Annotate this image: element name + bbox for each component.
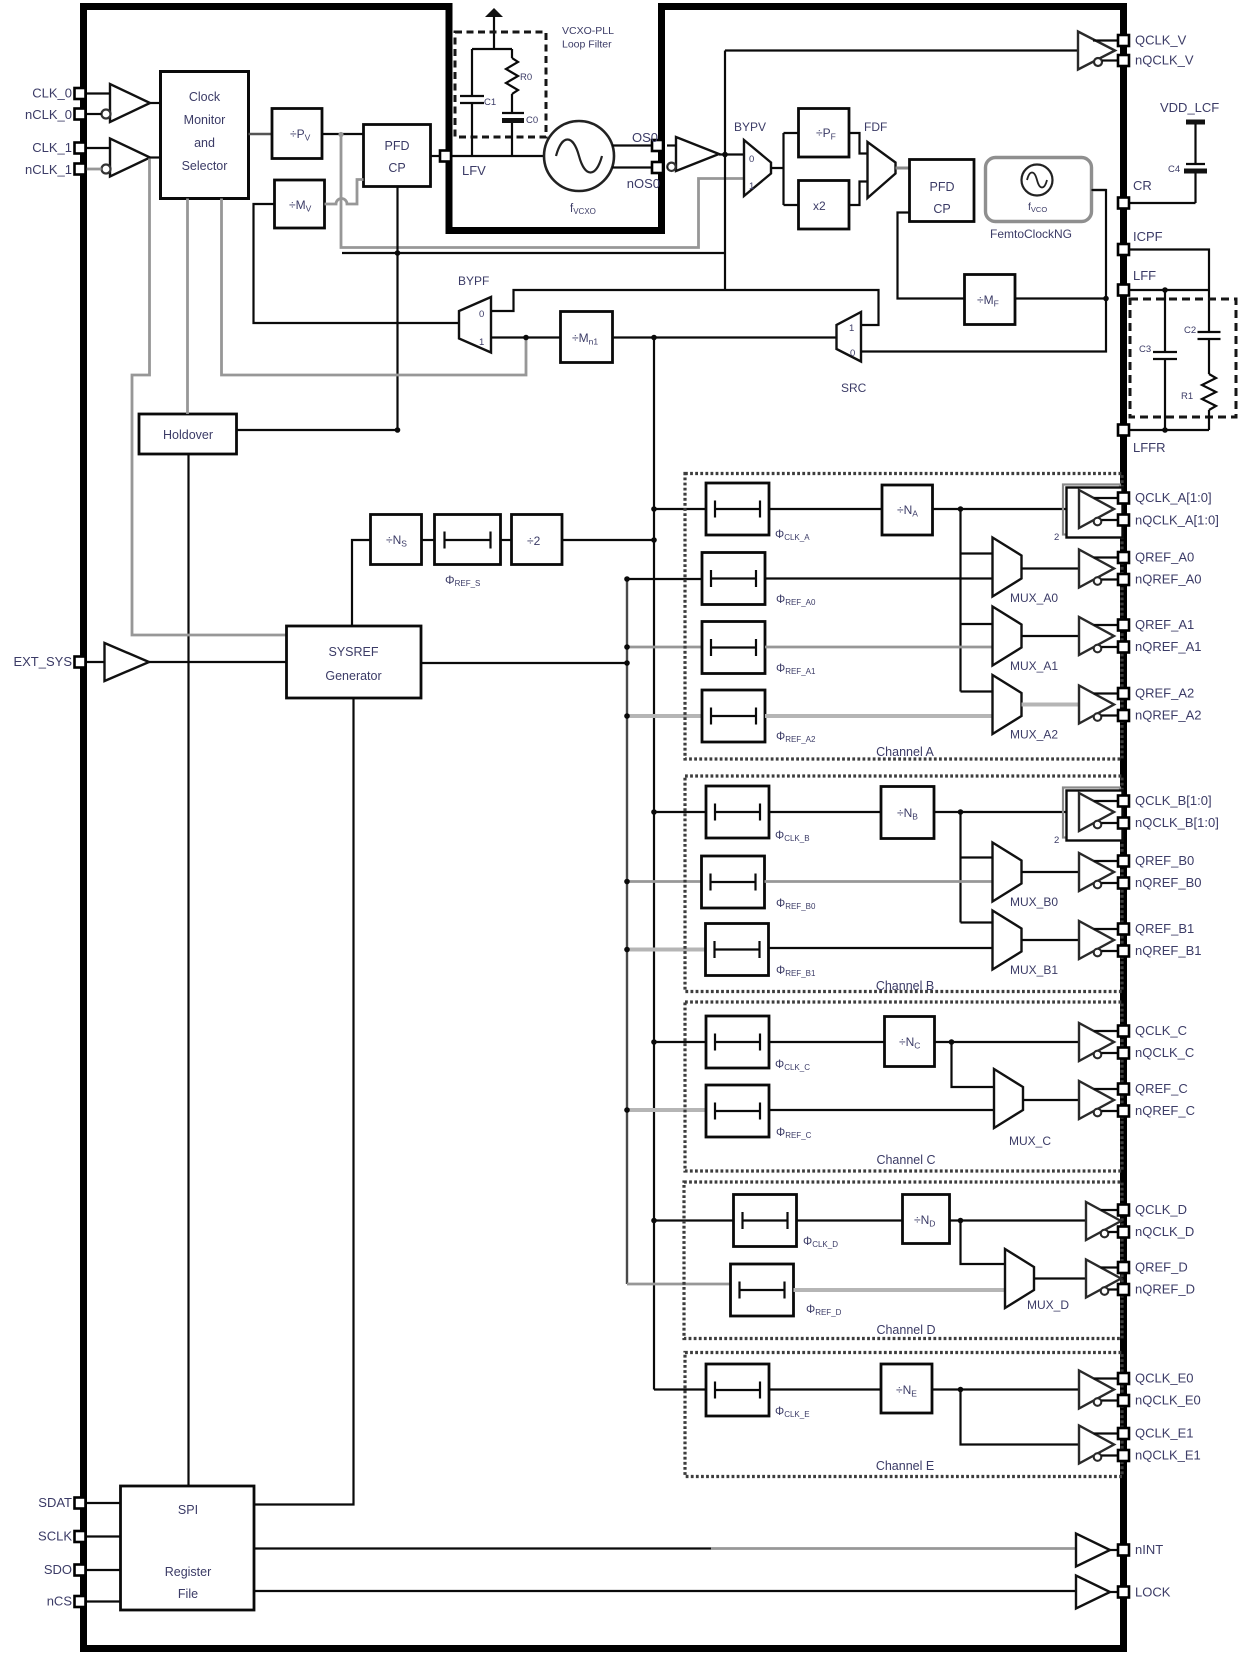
node QREF_A1 pin	[1118, 620, 1129, 631]
wire ICPF to external filter	[1130, 250, 1210, 333]
divider N_S	[371, 515, 422, 565]
svg-text:nCLK_1: nCLK_1	[25, 162, 72, 177]
divider N_B	[881, 787, 934, 839]
node QCLK_E0 pin	[1118, 1373, 1129, 1384]
divider N_E	[881, 1364, 932, 1413]
svg-text:QREF_A0: QREF_A0	[1135, 550, 1194, 565]
wire SPI to LOCK buffer	[254, 1590, 1076, 1592]
output buffer QREF_B1	[1079, 921, 1118, 959]
wire PV to PFD	[322, 133, 364, 135]
wire muxB0 top input	[961, 856, 993, 858]
node EXT_SYS pin	[75, 657, 86, 668]
wire OS0	[612, 144, 656, 146]
svg-text:MUX_D: MUX_D	[1027, 1298, 1069, 1312]
wire refC to mux	[769, 1109, 994, 1111]
svg-text:SYSREF: SYSREF	[328, 645, 378, 659]
wire gray PV-out branch down (to BYPV input 1)	[338, 132, 343, 137]
wire SPI to nINT buffer	[254, 1547, 711, 1549]
node nQREF_A2 pin	[1118, 710, 1129, 721]
capacitor C4	[1168, 164, 1207, 203]
wire mux feed vertical channel D	[961, 1221, 1006, 1265]
svg-text:R1: R1	[1181, 391, 1193, 402]
mux MUX_B1	[993, 911, 1022, 970]
wire clkB to NB	[769, 811, 881, 813]
wire PF out to FDF	[849, 133, 868, 154]
buffer LOCK	[1076, 1576, 1110, 1609]
wire OS0 net horizontal y253	[342, 252, 725, 254]
delay block PHI_CLK_C	[706, 1016, 769, 1068]
divider by 2	[512, 515, 563, 565]
wire NE to QCLK_E0 buffer	[932, 1388, 1079, 1390]
svg-text:QCLK_B[1:0]: QCLK_B[1:0]	[1135, 793, 1212, 808]
svg-text:0: 0	[479, 309, 484, 320]
svg-text:nQCLK_C: nQCLK_C	[1135, 1045, 1194, 1060]
wire nOS0	[612, 166, 656, 168]
wire nCS	[86, 1600, 121, 1602]
svg-text:MUX_C: MUX_C	[1009, 1134, 1051, 1148]
svg-text:File: File	[178, 1587, 198, 1601]
divider M_V	[275, 180, 325, 228]
divider N_D	[903, 1195, 950, 1244]
wire SDAT	[86, 1502, 121, 1504]
capacitor C0	[502, 113, 538, 156]
svg-text:QREF_A2: QREF_A2	[1135, 686, 1194, 701]
svg-text:nQREF_B0: nQREF_B0	[1135, 875, 1201, 890]
oscillator block fVCO FemtoClockNG	[986, 158, 1092, 242]
wire ND to QCLK_D buffer	[950, 1219, 1087, 1221]
node LFF pin	[1118, 285, 1129, 296]
node nQREF_C pin	[1118, 1106, 1129, 1117]
wire main clock vertical x654	[653, 338, 655, 1390]
node QREF_B1 pin	[1118, 924, 1129, 935]
mux MUX_B0	[993, 843, 1022, 902]
wire OS0 net vertical x725	[724, 51, 726, 291]
svg-text:FDF: FDF	[864, 120, 887, 134]
input buffer CLK_1/nCLK_1	[102, 139, 151, 177]
capacitor C1	[460, 49, 496, 156]
svg-text:QCLK_A[1:0]: QCLK_A[1:0]	[1135, 490, 1212, 505]
svg-text:nQREF_D: nQREF_D	[1135, 1282, 1195, 1297]
svg-text:nQREF_A1: nQREF_A1	[1135, 639, 1201, 654]
buffer OS0 input (to BYPV)	[667, 137, 719, 171]
block Clock Monitor and Selector	[161, 72, 249, 199]
svg-text:Loop Filter: Loop Filter	[562, 39, 612, 51]
svg-text:QCLK_V: QCLK_V	[1135, 33, 1187, 48]
wire ref tap B0	[627, 880, 702, 883]
svg-text:QREF_B0: QREF_B0	[1135, 853, 1194, 868]
svg-text:0: 0	[850, 348, 855, 359]
wire SPI to SYSREF gen bottom	[254, 698, 354, 1505]
capacitor C2	[1184, 325, 1221, 374]
node nQCLK_B pin	[1118, 818, 1129, 829]
node SDAT pin	[75, 1498, 86, 1509]
svg-text:nQREF_C: nQREF_C	[1135, 1103, 1195, 1118]
wire fVCO output	[1092, 189, 1107, 191]
svg-text:C1: C1	[484, 97, 496, 108]
node nCLK_1 pin	[75, 164, 86, 175]
svg-text:x2: x2	[813, 199, 826, 213]
capacitor C3	[1139, 290, 1177, 430]
divider P_F	[799, 109, 850, 158]
wire refA2 to mux (light)	[765, 714, 993, 718]
svg-text:LFV: LFV	[462, 163, 486, 178]
node SCLK pin	[75, 1531, 86, 1542]
svg-text:QCLK_C: QCLK_C	[1135, 1023, 1187, 1038]
svg-text:MUX_B1: MUX_B1	[1010, 963, 1058, 977]
wire ref tap B1	[627, 948, 706, 952]
svg-text:Channel C: Channel C	[876, 1153, 935, 1167]
svg-text:nQCLK_E1: nQCLK_E1	[1135, 1448, 1201, 1463]
wire OS0 pin to buffer	[667, 144, 676, 146]
wire refA1 to mux (gray)	[765, 646, 993, 649]
output buffer QCLK_B (x2)	[1054, 788, 1123, 847]
svg-text:EXT_SYS: EXT_SYS	[13, 654, 72, 669]
wire buffer to BYPV input0	[719, 153, 744, 155]
svg-text:QREF_D: QREF_D	[1135, 1260, 1188, 1275]
Channel D dashed border	[684, 1182, 1122, 1339]
node QCLK_C pin	[1118, 1026, 1129, 1037]
svg-text:0: 0	[749, 154, 754, 165]
mux MUX_A2	[993, 675, 1022, 734]
wire BYPF input0 to OS0 net y290	[491, 290, 879, 325]
delay block PHI_REF_B0	[702, 856, 765, 908]
wire PFD CP to LFV pin	[431, 155, 441, 157]
svg-text:FemtoClockNG: FemtoClockNG	[990, 227, 1072, 241]
svg-text:PFD: PFD	[385, 139, 410, 153]
wire Mn1 to SRC output	[613, 336, 837, 338]
node nOS0 pin	[652, 162, 663, 173]
output buffer QREF_A0	[1079, 550, 1118, 588]
wire SCLK	[86, 1535, 121, 1537]
wire nINT buffer to pin	[1110, 1549, 1118, 1551]
svg-text:SCLK: SCLK	[38, 1529, 72, 1544]
svg-text:nQREF_A2: nQREF_A2	[1135, 708, 1201, 723]
output buffer QREF_A1	[1079, 617, 1118, 655]
delay block phase REF_S	[435, 515, 501, 589]
node junction	[395, 250, 401, 256]
external loop filter dashed box	[1130, 299, 1236, 417]
divider P_V	[272, 109, 322, 159]
oscillator fVCXO	[544, 121, 614, 216]
delay block PHI_REF_B1	[706, 924, 769, 976]
svg-text:BYPF: BYPF	[458, 274, 489, 288]
node OS0 pin	[652, 140, 663, 151]
svg-text:nQCLK_A[1:0]: nQCLK_A[1:0]	[1135, 513, 1219, 528]
block x2 multiplier	[799, 181, 850, 230]
node nCS pin	[75, 1596, 86, 1607]
wire ref tap C	[627, 1108, 706, 1112]
svg-text:nOS0: nOS0	[627, 176, 660, 191]
node nINT pin	[1118, 1545, 1129, 1556]
svg-text:CLK_0: CLK_0	[32, 86, 72, 101]
wire ref tap A1	[627, 646, 702, 649]
svg-text:nQCLK_B[1:0]: nQCLK_B[1:0]	[1135, 815, 1219, 830]
svg-text:1: 1	[849, 323, 854, 334]
wire clock tap channel A	[654, 508, 706, 510]
wire clock tap channel C	[654, 1041, 706, 1043]
wire MV output to PFD CP feedback (gray, hop over x341)	[325, 180, 364, 205]
output buffer QCLK_V	[1078, 32, 1118, 70]
svg-text:QREF_B1: QREF_B1	[1135, 921, 1194, 936]
wire muxA2 top input	[961, 690, 993, 692]
input buffer CLK_0/nCLK_0	[102, 84, 151, 122]
node QREF_A0 pin	[1118, 552, 1129, 563]
svg-text:SRC: SRC	[841, 381, 867, 395]
mux BYPV (points right)	[734, 120, 771, 196]
wire SYSREF gen top to divider NS	[352, 540, 371, 626]
wire muxA0 top input	[961, 552, 993, 554]
svg-text:CP: CP	[388, 161, 405, 175]
svg-text:MUX_A1: MUX_A1	[1010, 659, 1058, 673]
output buffer QCLK_C	[1079, 1023, 1118, 1061]
Channel A dashed border	[685, 474, 1122, 760]
wire monitor output to holdover (gray)	[186, 199, 189, 415]
wire muxB1 output	[1022, 939, 1080, 941]
wire clkD to ND	[797, 1219, 903, 1221]
node nQCLK_E0 pin	[1118, 1395, 1129, 1406]
wire ref tap A0	[627, 578, 702, 580]
node nQCLK_C pin	[1118, 1048, 1129, 1059]
output buffer QCLK_E0	[1079, 1371, 1118, 1409]
node nQREF_D pin	[1118, 1284, 1129, 1295]
delay block PHI_REF_D	[731, 1264, 794, 1316]
divider N_A	[882, 485, 933, 535]
svg-text:C0: C0	[526, 115, 538, 126]
delay block PHI_REF_A1	[702, 622, 765, 674]
wire REF distribution vertical x627	[626, 579, 628, 1284]
node LFV pin	[440, 151, 451, 162]
wire CLK_0	[86, 92, 110, 94]
mux MUX_D	[1005, 1249, 1034, 1308]
wire SYSREF gen output to REF distribution vertical x627	[421, 662, 627, 664]
wire mux feed vertical channel C	[952, 1042, 995, 1087]
wire CR pin to C4	[1130, 202, 1196, 204]
svg-text:LFF: LFF	[1133, 268, 1156, 283]
power VDD_LCF	[1160, 100, 1219, 164]
node QCLK_A pin	[1118, 493, 1129, 504]
wire PFD2 feedback to divider MF	[898, 213, 965, 299]
wire nOS0 pin to buffer	[666, 166, 669, 168]
svg-text:MUX_A0: MUX_A0	[1010, 591, 1058, 605]
svg-text:nCLK_0: nCLK_0	[25, 107, 72, 122]
wire holdover to PFD net	[237, 429, 398, 431]
svg-text:Channel E: Channel E	[876, 1459, 934, 1473]
wire monitor to divider PV	[249, 133, 273, 136]
wire loop filter top node	[472, 48, 512, 50]
node QCLK_B pin	[1118, 796, 1129, 807]
wire REF_S to div2	[501, 539, 512, 541]
wire muxA1 output	[1022, 635, 1080, 637]
svg-text:Channel B: Channel B	[876, 979, 934, 993]
output buffer QCLK_A (x2)	[1054, 485, 1123, 544]
wire BYPV output to PF/x2	[771, 133, 799, 205]
VCC pull-up symbol for external loop filter	[485, 8, 503, 49]
svg-text:Selector: Selector	[182, 159, 228, 173]
svg-text:CP: CP	[933, 202, 950, 216]
svg-text:Channel D: Channel D	[876, 1323, 935, 1337]
svg-text:nCS: nCS	[47, 1594, 73, 1609]
node QREF_B0 pin	[1118, 856, 1129, 867]
wire muxA1 top input	[961, 623, 993, 625]
resistor R1	[1181, 374, 1216, 430]
wire refB1 to mux	[769, 947, 993, 949]
wire mux feed vertical channel B	[959, 812, 961, 923]
node nQCLK_V pin	[1118, 55, 1129, 66]
svg-text:QREF_C: QREF_C	[1135, 1081, 1188, 1096]
svg-text:SPI: SPI	[178, 1503, 198, 1517]
svg-text:Clock: Clock	[189, 90, 221, 104]
node nQCLK_E1 pin	[1118, 1450, 1129, 1461]
wire holdover bottom down to SPI	[187, 454, 189, 1486]
output buffer QCLK_E1	[1079, 1426, 1118, 1464]
wire nCLK_0	[86, 113, 102, 115]
wire clkC to NC	[769, 1041, 885, 1043]
Channel B dashed border	[685, 776, 1122, 992]
svg-text:SDO: SDO	[44, 1562, 72, 1577]
svg-text:C2: C2	[1184, 325, 1196, 336]
wire mux feed vertical channel A	[959, 509, 961, 692]
svg-text:Channel A: Channel A	[876, 745, 934, 759]
wire NS to phase REF_S	[422, 539, 435, 541]
wire NA to QCLK_A buffer	[933, 508, 1080, 510]
svg-text:1: 1	[479, 337, 484, 348]
svg-text:R0: R0	[520, 72, 532, 83]
wire ref tap A2	[627, 714, 702, 718]
output buffer QREF_B0	[1079, 853, 1118, 891]
wire nCLK_1	[86, 168, 102, 171]
svg-text:nQCLK_V: nQCLK_V	[1135, 53, 1194, 68]
wire muxB0 output	[1022, 871, 1080, 873]
wire clkE to NE	[769, 1388, 881, 1390]
wire clock tap channel D	[654, 1219, 734, 1221]
svg-text:QCLK_D: QCLK_D	[1135, 1202, 1187, 1217]
wire muxA0 output	[1022, 567, 1080, 569]
resistor R0	[506, 49, 532, 113]
wire muxA2 output (light)	[1022, 703, 1080, 707]
node QCLK_D pin	[1118, 1205, 1129, 1216]
wire refA0 to mux	[765, 577, 993, 579]
wire LFF to external filter	[1130, 289, 1210, 291]
mux MUX_A0	[993, 538, 1022, 597]
svg-text:1: 1	[749, 181, 754, 192]
VCXO-PLL loop filter dashed box	[455, 32, 546, 137]
node nQREF_A1 pin	[1118, 642, 1129, 653]
svg-text:VCXO-PLL: VCXO-PLL	[562, 25, 614, 37]
node QREF_D pin	[1118, 1262, 1129, 1273]
node LFFR pin	[1118, 425, 1129, 436]
mux SRC (points left)	[837, 312, 867, 395]
delay block PHI_REF_C	[706, 1085, 769, 1137]
wire to QCLK_E1 buffer	[961, 1390, 1080, 1445]
wire muxB1 top input	[961, 921, 993, 923]
wire BYPF input1 / divider Mn1 net y337.5	[491, 336, 561, 338]
wire CLK1 buffer branch to SYSREF gen (gray)	[132, 159, 287, 636]
wire buffer0 to monitor	[150, 102, 162, 104]
wire refB0 to mux (gray)	[765, 880, 993, 883]
svg-text:2: 2	[1054, 835, 1059, 846]
mux BYPF (points left)	[458, 274, 491, 353]
node ICPF pin	[1118, 244, 1129, 255]
delay block PHI_REF_A2	[702, 690, 765, 742]
mux FDF (points right)	[864, 120, 896, 198]
wire MV input from BYPF output	[254, 204, 460, 323]
buffer EXT_SYS input	[105, 643, 150, 681]
svg-text:VDD_LCF: VDD_LCF	[1160, 100, 1219, 115]
svg-text:Generator: Generator	[325, 669, 381, 683]
wire monitor output 2 down to BYPF input1 (gray)	[222, 199, 527, 376]
node QREF_A2 pin	[1118, 688, 1129, 699]
svg-text:÷2: ÷2	[527, 534, 541, 548]
svg-text:nQREF_A0: nQREF_A0	[1135, 572, 1201, 587]
mux MUX_A1	[993, 607, 1022, 666]
divider M_F	[965, 275, 1016, 325]
wire LOCK buffer to pin	[1110, 1591, 1118, 1593]
svg-text:nINT: nINT	[1135, 1542, 1163, 1557]
output buffer QREF_A2	[1079, 686, 1118, 724]
svg-text:QCLK_E0: QCLK_E0	[1135, 1371, 1194, 1386]
wire x2 out to FDF	[849, 182, 868, 206]
wire NB to QCLK_B buffer	[934, 811, 1079, 813]
svg-text:QREF_A1: QREF_A1	[1135, 617, 1194, 632]
wire QCLK_V feed y50	[725, 49, 1078, 51]
wire clock tap channel B	[654, 811, 706, 813]
node nQCLK_A pin	[1118, 515, 1129, 526]
svg-text:Monitor: Monitor	[184, 113, 226, 127]
delay block PHI_REF_A0	[702, 553, 765, 605]
wire ref tap D	[627, 1283, 731, 1286]
Channel E dashed border	[685, 1353, 1122, 1477]
block SPI Register File	[121, 1486, 255, 1610]
node nQCLK_D pin	[1118, 1227, 1129, 1238]
node QCLK_V pin	[1118, 35, 1129, 46]
wire EXT_SYS buffer to SYSREF gen	[149, 661, 287, 663]
mux MUX_C	[994, 1069, 1023, 1128]
svg-text:Holdover: Holdover	[163, 428, 213, 442]
wire MF input from fVCO net	[1015, 297, 1106, 299]
output buffer QCLK_D	[1086, 1202, 1125, 1240]
Channel C dashed border	[685, 1002, 1122, 1171]
wire muxD output	[1034, 1277, 1086, 1279]
wire NC to QCLK_C buffer	[935, 1041, 1080, 1043]
output buffer QREF_C	[1079, 1081, 1118, 1119]
buffer nINT	[1076, 1534, 1110, 1567]
output buffer QREF_D	[1086, 1260, 1125, 1298]
wire CLK_1	[86, 147, 110, 149]
divider M_n1	[561, 312, 613, 363]
node CLK_1 pin	[75, 143, 86, 154]
svg-text:SDAT: SDAT	[38, 1495, 72, 1510]
node LOCK pin	[1118, 1587, 1129, 1598]
delay block PHI_CLK_D	[734, 1195, 797, 1247]
wire buffer1 to monitor	[150, 156, 162, 158]
node nQREF_A0 pin	[1118, 574, 1129, 585]
delay block PHI_CLK_E	[706, 1364, 769, 1416]
block PFD CP (VCXO PLL)	[364, 125, 431, 187]
svg-text:and: and	[194, 136, 215, 150]
svg-text:BYPV: BYPV	[734, 120, 766, 134]
svg-text:MUX_A2: MUX_A2	[1010, 728, 1058, 742]
svg-text:QCLK_E1: QCLK_E1	[1135, 1426, 1194, 1441]
svg-text:Register: Register	[165, 1565, 212, 1579]
block SYSREF Generator	[287, 626, 422, 698]
svg-text:C3: C3	[1139, 344, 1151, 355]
wire div2 output to clock vertical	[562, 539, 654, 541]
divider N_C	[885, 1017, 935, 1067]
svg-text:PFD: PFD	[930, 180, 955, 194]
svg-text:CLK_1: CLK_1	[32, 140, 72, 155]
wire FDF out to PFD CP 2	[896, 167, 910, 170]
wire LFFR node	[1130, 429, 1210, 431]
